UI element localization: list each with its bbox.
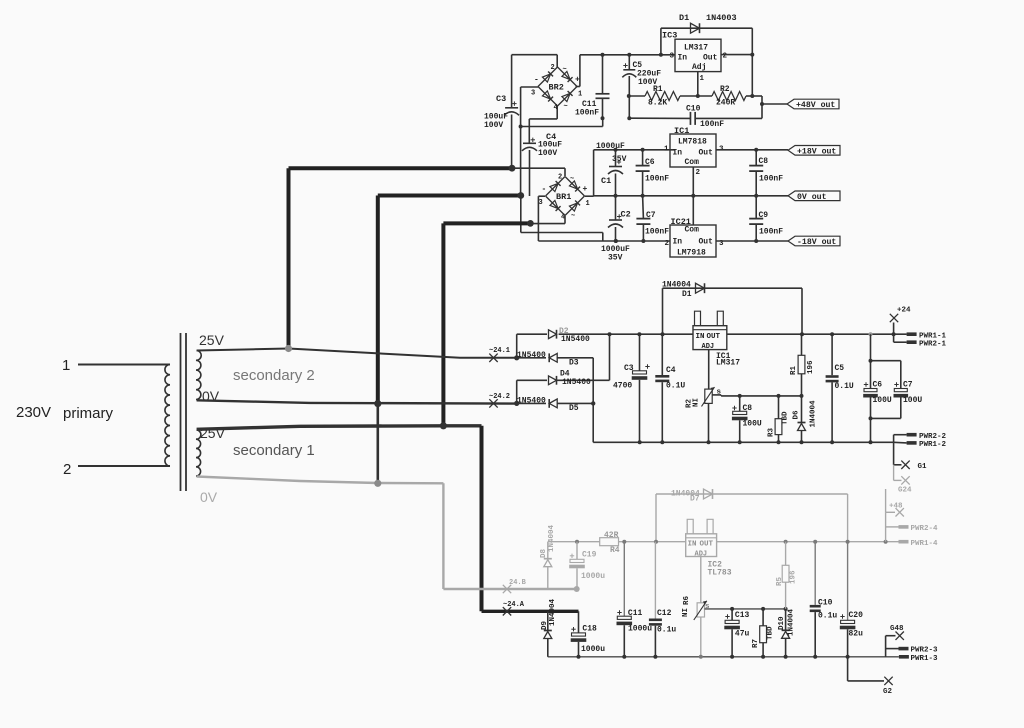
svg-text:s: s — [705, 603, 710, 611]
svg-text:Com: Com — [685, 158, 700, 167]
svg-text:42R: 42R — [604, 531, 619, 540]
svg-text:+48: +48 — [889, 503, 903, 511]
svg-text:PWR2-3: PWR2-3 — [911, 647, 939, 655]
svg-text:1: 1 — [578, 91, 582, 99]
svg-text:D4: D4 — [560, 370, 570, 379]
svg-text:TBD: TBD — [767, 626, 775, 640]
svg-text:1: 1 — [62, 357, 70, 374]
svg-text:1N4004: 1N4004 — [810, 400, 818, 428]
svg-text:In: In — [673, 149, 683, 158]
svg-text:8.2K: 8.2K — [648, 99, 667, 108]
svg-text:TL783: TL783 — [708, 569, 732, 578]
svg-text:2: 2 — [723, 53, 728, 61]
svg-text:C3: C3 — [624, 364, 634, 373]
svg-text:LM7818: LM7818 — [678, 138, 707, 147]
svg-text:D10: D10 — [778, 616, 786, 630]
svg-text:primary: primary — [63, 405, 114, 422]
svg-text:1N4004: 1N4004 — [548, 524, 556, 552]
svg-text:1: 1 — [700, 75, 705, 83]
svg-text:C7: C7 — [903, 381, 913, 390]
svg-text:+18V out: +18V out — [797, 147, 836, 156]
svg-text:NI: NI — [682, 608, 690, 617]
svg-text:2: 2 — [558, 174, 562, 182]
svg-text:G24: G24 — [898, 487, 912, 495]
svg-text:1N4004: 1N4004 — [662, 281, 691, 290]
svg-text:~: ~ — [564, 103, 568, 111]
svg-text:100nF: 100nF — [645, 175, 669, 184]
svg-text:0.1U: 0.1U — [666, 382, 685, 391]
svg-text:196: 196 — [807, 360, 815, 374]
svg-text:IN: IN — [688, 541, 697, 549]
svg-text:2: 2 — [63, 461, 71, 478]
svg-text:1N4004: 1N4004 — [788, 608, 796, 636]
svg-text:TBD: TBD — [782, 411, 790, 425]
svg-text:~24.2: ~24.2 — [489, 393, 510, 401]
svg-text:NI: NI — [693, 398, 701, 407]
svg-text:100nF: 100nF — [759, 175, 783, 184]
svg-text:R1: R1 — [790, 365, 798, 375]
svg-text:47u: 47u — [735, 630, 750, 639]
svg-text:1000u: 1000u — [628, 625, 652, 634]
svg-text:PWR1-3: PWR1-3 — [911, 655, 939, 663]
svg-text:100V: 100V — [538, 149, 557, 158]
svg-text:LM317: LM317 — [684, 44, 708, 53]
svg-text:PWR2-1: PWR2-1 — [919, 340, 947, 348]
svg-text:D8: D8 — [540, 548, 548, 558]
svg-text:R2: R2 — [720, 85, 730, 94]
svg-text:100nF: 100nF — [700, 120, 724, 129]
svg-text:PWR2-2: PWR2-2 — [919, 433, 947, 441]
svg-text:100U: 100U — [743, 420, 762, 429]
svg-text:+: + — [575, 76, 580, 85]
svg-text:~24.1: ~24.1 — [489, 347, 510, 355]
svg-text:2: 2 — [551, 64, 555, 72]
svg-text:C8: C8 — [759, 157, 769, 166]
svg-text:1: 1 — [586, 200, 590, 208]
svg-text:0.1U: 0.1U — [835, 382, 854, 391]
svg-text:PWR1-1: PWR1-1 — [919, 332, 947, 340]
svg-text:C19: C19 — [582, 551, 597, 560]
svg-text:PWR1-4: PWR1-4 — [911, 540, 939, 548]
svg-text:LM7918: LM7918 — [677, 249, 706, 258]
svg-text:C10: C10 — [686, 105, 701, 114]
svg-text:C3: C3 — [496, 94, 506, 104]
svg-text:Out: Out — [699, 238, 714, 247]
svg-text:1000uF: 1000uF — [596, 142, 625, 151]
svg-text:196: 196 — [790, 570, 798, 584]
svg-text:25V: 25V — [199, 332, 225, 348]
svg-text:G1: G1 — [918, 463, 928, 471]
svg-text:-: - — [542, 185, 547, 194]
svg-text:1: 1 — [664, 146, 669, 154]
svg-text:OUT: OUT — [707, 333, 721, 341]
svg-text:230V: 230V — [16, 404, 51, 421]
svg-text:C2: C2 — [621, 210, 631, 220]
svg-text:IC1: IC1 — [674, 126, 689, 136]
svg-text:R3: R3 — [768, 427, 776, 437]
svg-text:Out: Out — [703, 54, 718, 63]
svg-text:100nF: 100nF — [645, 228, 669, 237]
svg-text:R6: R6 — [683, 595, 691, 605]
svg-text:LM317: LM317 — [716, 359, 740, 368]
svg-text:C9: C9 — [759, 211, 769, 220]
svg-text:0.1u: 0.1u — [818, 612, 837, 621]
svg-text:C12: C12 — [657, 609, 672, 618]
svg-text:~: ~ — [571, 213, 575, 221]
svg-text:C13: C13 — [735, 611, 750, 620]
svg-text:1000u: 1000u — [581, 645, 605, 654]
svg-text:-18V out: -18V out — [797, 238, 836, 247]
svg-text:100nF: 100nF — [759, 228, 783, 237]
svg-text:OUT: OUT — [700, 541, 714, 549]
svg-text:ADJ: ADJ — [702, 343, 715, 351]
svg-text:R4: R4 — [610, 546, 620, 555]
svg-text:C18: C18 — [582, 625, 597, 634]
svg-text:24.B: 24.B — [509, 579, 527, 587]
svg-text:1N4003: 1N4003 — [706, 13, 737, 23]
svg-text:G48: G48 — [890, 625, 904, 633]
svg-text:C6: C6 — [873, 381, 883, 390]
svg-text:C7: C7 — [646, 211, 656, 220]
svg-text:D1: D1 — [682, 290, 692, 299]
svg-text:C11: C11 — [628, 609, 643, 618]
svg-text:35V: 35V — [612, 155, 627, 164]
svg-text:C6: C6 — [645, 158, 655, 167]
svg-text:G2: G2 — [883, 688, 893, 696]
svg-text:PWR2-4: PWR2-4 — [911, 525, 939, 533]
svg-text:D7: D7 — [690, 495, 700, 504]
svg-text:R7: R7 — [752, 639, 760, 648]
svg-text:1N4004: 1N4004 — [549, 598, 557, 626]
svg-text:secondary 1: secondary 1 — [233, 442, 315, 459]
svg-text:BR1: BR1 — [556, 192, 571, 202]
svg-text:BR2: BR2 — [549, 83, 564, 93]
svg-text:Adj: Adj — [692, 63, 706, 72]
svg-text:PWR1-2: PWR1-2 — [919, 441, 947, 449]
svg-text:100U: 100U — [873, 396, 892, 405]
svg-text:0V out: 0V out — [797, 193, 827, 202]
svg-text:C4: C4 — [666, 366, 676, 375]
svg-text:1N5400: 1N5400 — [561, 335, 590, 344]
svg-text:C20: C20 — [849, 611, 864, 620]
svg-text:2: 2 — [696, 169, 701, 177]
svg-text:Com: Com — [685, 226, 700, 235]
svg-text:secondary 2: secondary 2 — [233, 367, 315, 384]
svg-text:D3: D3 — [569, 359, 579, 368]
svg-text:D9: D9 — [541, 620, 549, 630]
svg-text:-: - — [534, 76, 539, 85]
svg-text:2: 2 — [665, 240, 670, 248]
svg-text:D5: D5 — [569, 404, 579, 413]
svg-text:100U: 100U — [903, 396, 922, 405]
svg-text:+: + — [583, 185, 588, 194]
svg-text:+24: +24 — [897, 307, 911, 315]
svg-text:~: ~ — [563, 66, 567, 74]
svg-text:R5: R5 — [776, 576, 784, 586]
svg-text:35V: 35V — [608, 254, 623, 263]
svg-text:1N5400: 1N5400 — [517, 351, 546, 360]
svg-text:3: 3 — [531, 90, 535, 98]
svg-text:In: In — [678, 54, 688, 63]
svg-text:C8: C8 — [743, 404, 753, 413]
svg-text:C10: C10 — [818, 599, 833, 608]
svg-text:1000u: 1000u — [581, 572, 605, 581]
svg-text:1N5400: 1N5400 — [562, 378, 591, 387]
svg-text:C5: C5 — [835, 364, 845, 373]
svg-text:240R: 240R — [716, 99, 735, 108]
svg-text:4700: 4700 — [613, 382, 632, 391]
svg-text:3: 3 — [670, 53, 675, 61]
svg-text:0V: 0V — [200, 489, 218, 505]
svg-text:82u: 82u — [849, 630, 864, 639]
svg-text:R1: R1 — [653, 85, 663, 94]
svg-text:D6: D6 — [793, 410, 801, 420]
svg-text:100V: 100V — [484, 121, 503, 130]
svg-text:C1: C1 — [601, 176, 611, 186]
svg-text:Out: Out — [699, 149, 714, 158]
svg-text:100nF: 100nF — [575, 109, 599, 118]
svg-text:In: In — [673, 238, 683, 247]
svg-text:~: ~ — [570, 176, 574, 184]
svg-text:0.1u: 0.1u — [657, 626, 676, 635]
svg-text:IN: IN — [696, 333, 705, 341]
svg-text:+48V out: +48V out — [796, 101, 835, 110]
svg-text:~24.A: ~24.A — [503, 601, 525, 609]
svg-text:D1: D1 — [679, 13, 689, 23]
svg-text:IC3: IC3 — [662, 31, 677, 41]
